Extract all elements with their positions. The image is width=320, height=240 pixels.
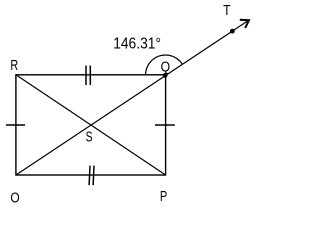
tick left side RO (single) <box>6 124 25 126</box>
svg-text:P: P <box>160 189 167 205</box>
rectangle ROPQ <box>16 75 166 175</box>
tick right side QP (single) <box>155 124 175 126</box>
svg-text:O: O <box>10 190 19 206</box>
tick top side RQ (double) <box>86 66 90 86</box>
ray OQT <box>16 21 247 175</box>
svg-text:T: T <box>223 3 231 19</box>
point Q dot <box>163 73 168 78</box>
angle arc at Q <box>146 55 183 75</box>
svg-text:146.31°: 146.31° <box>113 36 161 53</box>
tick bottom side OP (double) <box>89 166 94 186</box>
svg-text:S: S <box>86 130 93 146</box>
diagonal RP <box>16 75 166 175</box>
svg-text:R: R <box>10 58 18 74</box>
point T dot <box>230 29 235 34</box>
arrowhead <box>240 20 249 28</box>
svg-text:Q: Q <box>161 59 171 75</box>
